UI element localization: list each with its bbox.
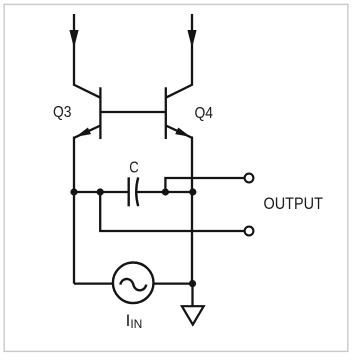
svg-text:OUTPUT: OUTPUT	[264, 195, 323, 213]
svg-text:Q4: Q4	[195, 105, 214, 122]
wire: capacitor wire left segment	[74, 191, 129, 193]
ground	[182, 306, 204, 324]
wire: Q3 emitter vertical (left rail)	[73, 137, 75, 284]
wire: current source to ground node	[154, 282, 193, 284]
wire: capacitor wire right segment	[137, 191, 193, 193]
current arrow into Q3 collector	[69, 30, 78, 48]
current source sine wave	[120, 279, 146, 290]
wire: Q4 collector lead (right top vertical)	[191, 14, 193, 85]
wire: ground stem	[191, 284, 193, 306]
wire: bottom left to current source	[74, 282, 113, 284]
transistor Q4	[166, 84, 193, 139]
node: junction dot at ground	[189, 280, 196, 287]
node: junction dot left rail / cap wire	[70, 188, 77, 195]
transistor Q3	[73, 84, 100, 139]
node: junction dot upper output branch	[162, 188, 169, 195]
current source IIN circle	[113, 263, 154, 304]
terminal: lower output	[245, 227, 254, 236]
terminal: upper output	[245, 174, 254, 183]
wire: Q4 emitter vertical (right rail)	[191, 137, 193, 284]
svg-text:C: C	[129, 160, 139, 177]
node: junction dot lower output branch	[97, 188, 104, 195]
capacitor C	[129, 177, 139, 206]
wire: Q3 collector lead (left top vertical)	[73, 14, 75, 85]
current arrow into Q4 collector	[187, 30, 196, 48]
svg-text:Q3: Q3	[53, 104, 72, 121]
wire: base connection Q3-Q4	[100, 111, 165, 113]
wire: upper output branch	[165, 178, 244, 192]
wire: lower output branch	[100, 192, 245, 231]
node: junction dot right rail / cap wire	[189, 188, 196, 195]
svg-text:IIN: IIN	[126, 311, 143, 331]
